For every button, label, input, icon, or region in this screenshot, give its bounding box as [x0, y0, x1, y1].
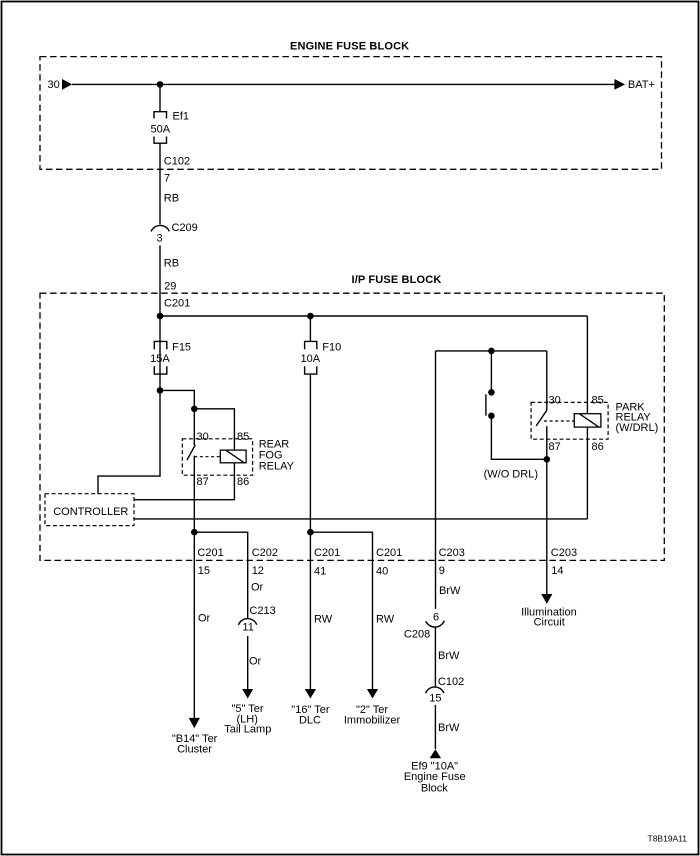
- svg-text:86: 86: [592, 441, 604, 453]
- svg-text:3: 3: [157, 232, 163, 244]
- svg-text:6: 6: [433, 612, 439, 624]
- svg-text:40: 40: [376, 566, 388, 578]
- svg-text:Or: Or: [249, 656, 262, 668]
- svg-text:CONTROLLER: CONTROLLER: [53, 506, 128, 518]
- svg-text:14: 14: [551, 565, 563, 577]
- svg-text:C203: C203: [551, 547, 577, 559]
- svg-text:15: 15: [198, 565, 210, 577]
- svg-text:86: 86: [237, 476, 249, 488]
- svg-text:7: 7: [164, 172, 170, 184]
- svg-text:C213: C213: [249, 605, 275, 617]
- svg-text:12: 12: [252, 565, 264, 577]
- svg-text:Immobilizer: Immobilizer: [344, 714, 401, 726]
- svg-text:C201: C201: [314, 547, 340, 559]
- svg-text:30: 30: [197, 431, 209, 443]
- svg-text:C209: C209: [172, 222, 198, 234]
- svg-text:BrW: BrW: [438, 722, 460, 734]
- svg-text:RW: RW: [376, 614, 395, 626]
- svg-text:87: 87: [549, 441, 561, 453]
- svg-text:Ef1: Ef1: [173, 111, 190, 123]
- svg-text:30: 30: [48, 79, 60, 91]
- svg-text:T8B19A11: T8B19A11: [648, 834, 688, 844]
- svg-text:C102: C102: [438, 676, 464, 688]
- svg-text:C202: C202: [252, 547, 278, 559]
- svg-text:RB: RB: [164, 193, 179, 205]
- svg-text:85: 85: [592, 395, 604, 407]
- svg-text:9: 9: [439, 565, 445, 577]
- svg-text:F15: F15: [172, 341, 191, 353]
- svg-text:ENGINE FUSE BLOCK: ENGINE FUSE BLOCK: [290, 40, 409, 52]
- svg-text:Cluster: Cluster: [177, 744, 212, 756]
- svg-text:(W/O DRL): (W/O DRL): [484, 469, 538, 481]
- svg-text:Or: Or: [251, 582, 264, 594]
- svg-text:41: 41: [314, 566, 326, 578]
- svg-text:BrW: BrW: [439, 585, 461, 597]
- svg-text:Tail Lamp: Tail Lamp: [224, 724, 271, 736]
- svg-text:RB: RB: [164, 257, 179, 269]
- svg-text:Circuit: Circuit: [534, 617, 565, 629]
- svg-text:BrW: BrW: [438, 650, 460, 662]
- svg-text:50A: 50A: [151, 124, 171, 136]
- svg-text:29: 29: [164, 280, 176, 292]
- svg-text:11: 11: [242, 621, 253, 633]
- svg-text:Block: Block: [421, 782, 448, 794]
- svg-text:85: 85: [237, 431, 249, 443]
- svg-text:30: 30: [549, 395, 561, 407]
- svg-text:BAT+: BAT+: [628, 79, 655, 91]
- svg-text:C201: C201: [197, 547, 223, 559]
- svg-text:RW: RW: [314, 614, 333, 626]
- svg-text:I/P FUSE BLOCK: I/P FUSE BLOCK: [352, 274, 442, 286]
- svg-text:F10: F10: [322, 341, 341, 353]
- svg-text:(W/DRL): (W/DRL): [616, 422, 659, 434]
- svg-text:15A: 15A: [150, 353, 170, 365]
- svg-text:C203: C203: [439, 547, 465, 559]
- svg-text:15: 15: [429, 692, 441, 704]
- svg-text:Or: Or: [198, 613, 211, 625]
- svg-text:DLC: DLC: [299, 714, 321, 726]
- svg-text:C201: C201: [376, 547, 402, 559]
- svg-text:RELAY: RELAY: [259, 461, 295, 473]
- svg-text:C208: C208: [404, 629, 430, 641]
- svg-text:87: 87: [197, 476, 209, 488]
- svg-text:Engine Fuse: Engine Fuse: [404, 771, 466, 783]
- svg-text:10A: 10A: [301, 353, 321, 365]
- svg-text:C201: C201: [164, 297, 190, 309]
- svg-text:C102: C102: [164, 156, 190, 168]
